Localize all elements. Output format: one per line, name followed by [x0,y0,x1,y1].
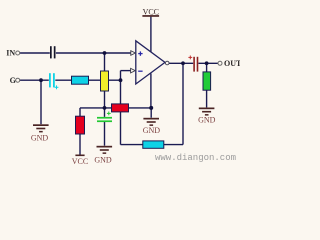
svg-text:GND: GND [94,155,112,164]
svg-text:IN: IN [6,49,15,58]
svg-text:VCC: VCC [143,7,159,16]
svg-text:GND: GND [31,134,49,143]
svg-text:GND: GND [198,116,216,125]
svg-text:VCC: VCC [72,157,88,165]
svg-text:GND: GND [143,126,161,135]
svg-text:G: G [10,76,16,85]
svg-text:www.diangon.com: www.diangon.com [155,153,236,163]
svg-text:OUT: OUT [224,59,240,68]
